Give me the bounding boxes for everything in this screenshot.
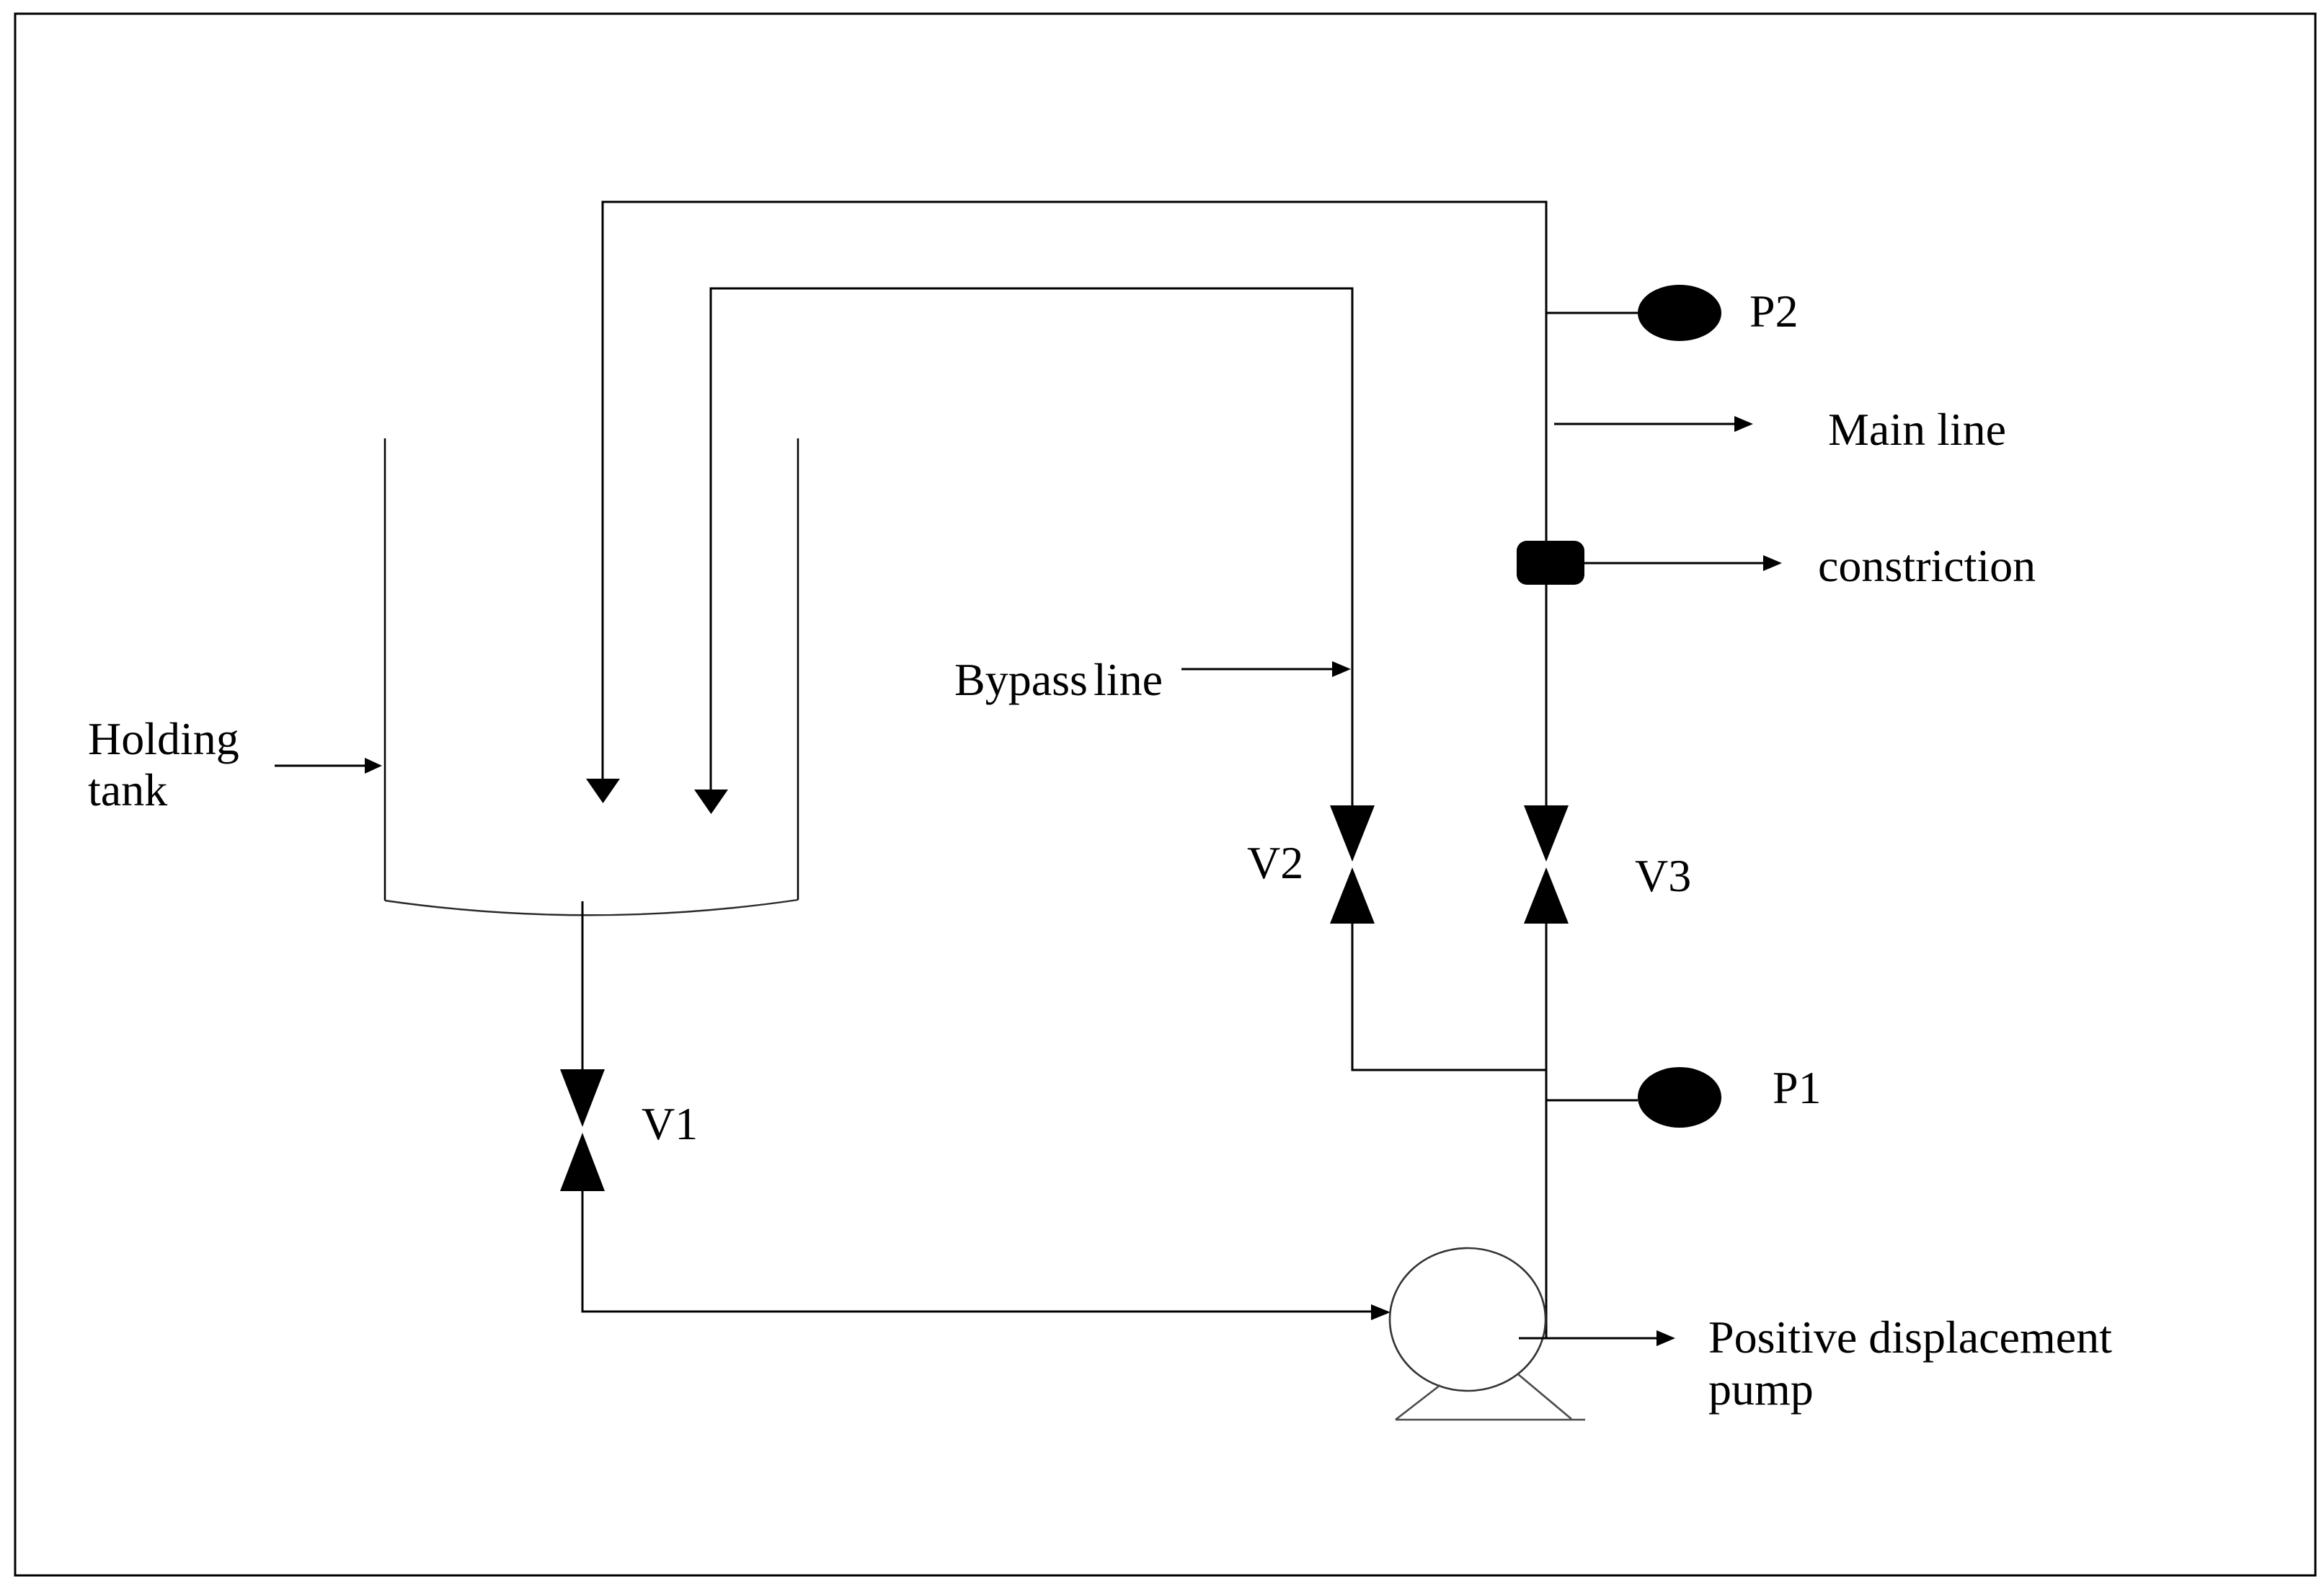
svg-text:pump: pump: [1708, 1363, 1814, 1415]
pump stand right leg: [1518, 1374, 1571, 1419]
holding tank walls: [384, 438, 386, 901]
wire: branch to pressure gauge P1: [1546, 1100, 1638, 1102]
wire: tank outlet pipe down to valve V1: [582, 901, 584, 1069]
arrow: constriction pointer: [1584, 562, 1765, 565]
holding tank curved bottom: [385, 900, 798, 915]
svg-text:Holding: Holding: [88, 713, 239, 764]
wire: branch to pressure gauge P2: [1546, 312, 1638, 314]
arrow: bypass line pointer: [1181, 668, 1334, 671]
valve V1: [560, 1069, 605, 1127]
svg-text:constriction: constriction: [1818, 540, 2036, 591]
arrow: pump outlet / pointer to pump label: [1519, 1337, 1658, 1340]
wire: bypass pipe (tank to top jog over to V2): [711, 288, 1352, 805]
svg-text:Main line: Main line: [1828, 404, 2006, 455]
pump stand base: [1396, 1419, 1585, 1421]
arrowhead: main pipe discharging into tank: [586, 779, 620, 803]
pressure gauge P2: [1638, 285, 1721, 341]
arrowhead: bypass pipe discharging into tank: [694, 790, 728, 814]
wire: main recirculation pipe (tank to top to right vertical): [603, 202, 1546, 805]
wire: main vertical pipe below V3 down to pump: [1545, 924, 1548, 1338]
constriction block on main line: [1517, 541, 1584, 585]
wire: pipe from V1 to pump inlet: [582, 1191, 1372, 1312]
svg-text:V3: V3: [1635, 850, 1691, 901]
svg-text:Positive displacement: Positive displacement: [1708, 1312, 2112, 1363]
svg-text:tank: tank: [88, 764, 167, 815]
svg-text:V1: V1: [642, 1098, 698, 1149]
arrowhead: pump inlet: [1371, 1304, 1391, 1320]
valve V2: [1330, 805, 1375, 862]
pump circle (positive displacement pump): [1390, 1248, 1545, 1391]
valve V3: [1524, 805, 1569, 862]
wire: bypass pipe below V2 and jog to main line: [1352, 924, 1546, 1070]
arrow: Holding tank pointer: [275, 765, 366, 767]
svg-text:Bypassline: Bypassline: [954, 654, 1163, 705]
svg-text:P2: P2: [1749, 286, 1799, 337]
arrow: Main line pointer: [1554, 423, 1736, 425]
svg-text:P1: P1: [1773, 1062, 1822, 1113]
svg-text:V2: V2: [1247, 837, 1303, 888]
pump stand left leg: [1396, 1385, 1440, 1420]
pressure gauge P1: [1638, 1067, 1721, 1128]
